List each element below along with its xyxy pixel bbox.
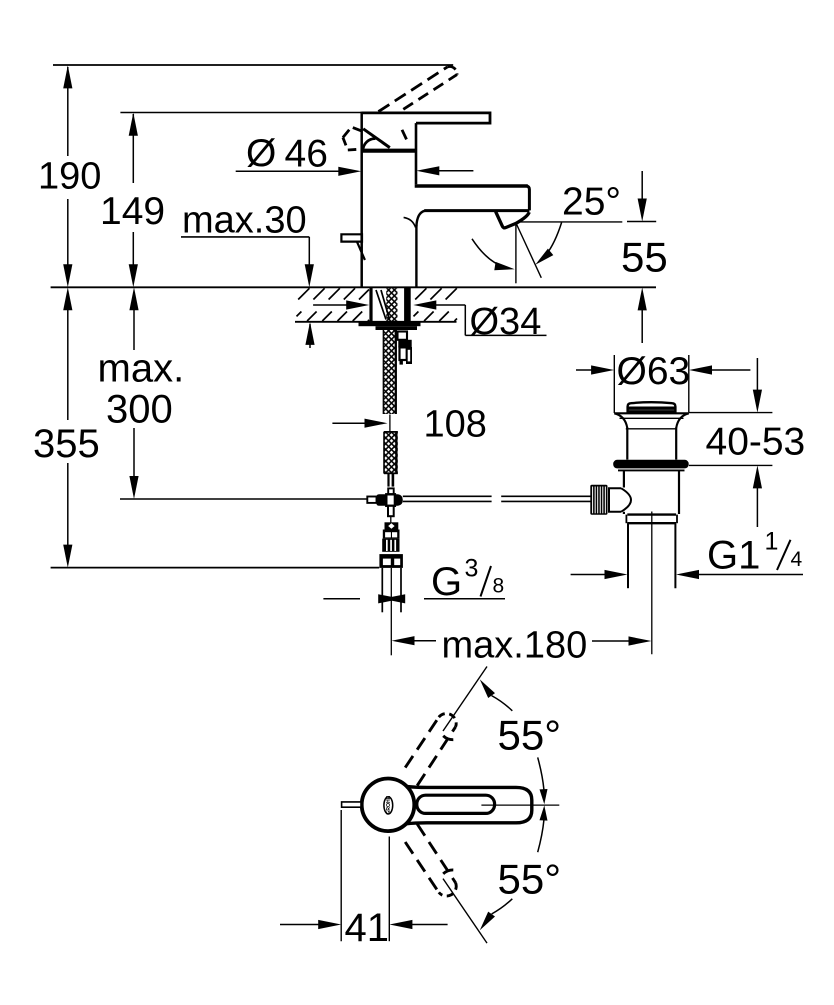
faucet centre line (bottom)	[390, 568, 392, 655]
upper 55° swing annotation	[443, 667, 561, 805]
faucet column right edge	[415, 123, 418, 184]
svg-text:8: 8	[493, 575, 505, 598]
svg-text:55: 55	[621, 234, 668, 281]
svg-text:1: 1	[765, 528, 779, 556]
top view left pin	[342, 802, 361, 807]
dimension 190 vertical line + label	[38, 65, 101, 287]
svg-text:108: 108	[424, 404, 487, 446]
faucet handle bar (closed position)	[362, 113, 490, 123]
top view lever outline (closed)	[406, 786, 532, 823]
svg-text:max.180: max.180	[442, 625, 588, 667]
svg-text:4: 4	[791, 548, 803, 571]
svg-text:Ø: Ø	[246, 132, 276, 175]
dimension Ø46 label + arrows	[236, 132, 474, 176]
pop-up waste rod (horizontal, with break)	[403, 496, 591, 501]
dimension 149 vertical line + label	[100, 113, 165, 288]
drain plug cap	[628, 402, 676, 412]
top view dashed lever (open, rotated 55° up)	[405, 714, 456, 786]
dimension 190 top reference line (handle raised height)	[53, 64, 453, 66]
faucet base right edge	[415, 225, 417, 287]
25° spray angle annotation	[472, 181, 622, 284]
svg-text:55°: 55°	[498, 856, 562, 903]
faucet handle pivot arc	[363, 139, 376, 151]
dimension Ø63 label + arrows	[576, 350, 750, 393]
svg-text:Ø34: Ø34	[470, 301, 542, 343]
dimension 41 label + arrows	[280, 810, 448, 950]
GROHE logo on top view	[384, 795, 393, 815]
drain tailpipe (G1 1/4 thread)	[628, 523, 675, 588]
dimension max.300 vertical line + label	[98, 287, 185, 499]
faucet handle base slant edge	[363, 129, 390, 148]
drain rubber gasket	[613, 460, 689, 469]
top view centre line	[481, 804, 559, 806]
svg-text:149: 149	[100, 190, 165, 233]
hose gap centre line	[389, 415, 391, 432]
dimension 55 (spout height) + label	[621, 171, 668, 343]
pop-up rod knob on faucet body	[341, 234, 365, 260]
faucet spout top edge	[415, 184, 528, 187]
faucet spout right edge	[526, 186, 529, 211]
dimension 40-53 label + arrows	[689, 358, 805, 527]
dimension G3/8 label + arrows	[323, 555, 505, 605]
braided supply hose (upper segment)	[383, 330, 396, 414]
svg-text:max.30: max.30	[182, 200, 307, 242]
svg-text:max.: max.	[98, 347, 185, 391]
svg-text:G: G	[431, 560, 462, 604]
top view lever inner slot	[417, 795, 495, 813]
faucet column left edge	[360, 112, 363, 287]
svg-text:46: 46	[285, 133, 328, 176]
lower 55° swing annotation	[443, 805, 561, 943]
svg-text:190: 190	[38, 156, 101, 198]
svg-text:300: 300	[106, 388, 173, 432]
countertop section hatching	[297, 288, 458, 321]
dimension 108 label + arrow	[332, 404, 487, 446]
dimension 355 vertical line + label	[33, 287, 100, 567]
dashed handle outline (raised position)	[343, 67, 457, 150]
faucet aerator (25° outlet)	[496, 212, 530, 228]
dimension 355 bottom reference line	[51, 567, 380, 569]
faucet body top thick line	[363, 149, 417, 153]
drain body sides	[624, 470, 679, 514]
dimension 149 reference line (handle top)	[120, 112, 363, 114]
braided supply hose (lower segment)	[384, 432, 398, 474]
knurled rod adjuster knob	[590, 485, 607, 515]
top view faucet body circle	[362, 779, 415, 832]
fitting lower neck + centre line	[388, 506, 394, 523]
hose end tube	[388, 474, 394, 495]
supply pipe below G3/8 fitting	[382, 568, 401, 612]
drain locking collar	[626, 515, 677, 524]
svg-text:25°: 25°	[562, 181, 621, 224]
hose side fitting (pop-up rod connector)	[398, 332, 413, 365]
dimension G1 1/4 label + arrows	[571, 528, 803, 580]
svg-text:40-53: 40-53	[706, 421, 806, 464]
dimension max.30 label + leader arrows	[181, 200, 315, 349]
faucet spout bottom edge	[424, 209, 529, 212]
dimension Ø34 (shank) label + arrows	[313, 300, 546, 343]
mounting nut under countertop	[359, 322, 421, 330]
svg-text:55°: 55°	[498, 712, 562, 759]
drain flange upper body	[614, 413, 689, 459]
svg-text:3: 3	[465, 555, 479, 583]
dimension max.180 label + arrows	[392, 625, 652, 667]
max.300 bottom reference line	[120, 498, 367, 500]
svg-text:GROHE: GROHE	[386, 795, 392, 815]
faucet base fillet (spout underside to base)	[416, 211, 424, 227]
drain flange underside line	[618, 469, 685, 471]
svg-text:G1: G1	[707, 534, 760, 578]
countertop bottom line	[295, 321, 457, 323]
rod adjuster housing	[609, 488, 631, 512]
countertop top line	[51, 286, 656, 288]
svg-text:Ø63: Ø63	[617, 350, 691, 393]
G3/8 hose end fitting	[379, 522, 403, 568]
svg-text:355: 355	[33, 422, 100, 466]
top view dashed lever (open, rotated 55° down)	[405, 824, 456, 896]
pop-up rod cross fitting	[367, 494, 403, 506]
faucet spout inner fillet curve	[404, 217, 416, 227]
Ø63 extension lines	[614, 355, 689, 413]
faucet threaded shank through countertop	[371, 287, 411, 322]
svg-text:41: 41	[345, 906, 390, 950]
drain centre line	[651, 512, 653, 655]
